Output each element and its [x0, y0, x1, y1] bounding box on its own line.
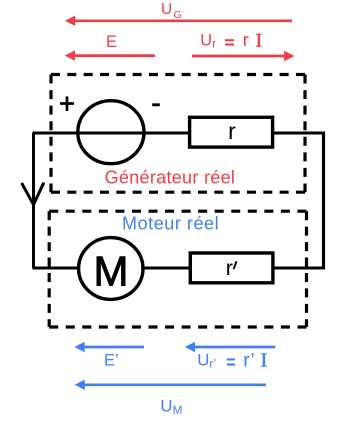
svg-text:I: I	[261, 351, 268, 372]
arrow U_r' (motor internal resistance voltage, points left)	[185, 342, 275, 352]
label U_G	[161, 1, 182, 21]
wire: right vertical	[322, 132, 325, 270]
svg-text:Générateur réel: Générateur réel	[105, 168, 236, 188]
arrow U_r (internal resistance voltage, points right)	[192, 51, 294, 61]
svg-text:r: r	[212, 39, 216, 51]
motor circle M1	[79, 238, 143, 300]
svg-text:Moteur réel: Moteur réel	[122, 214, 219, 234]
svg-text:U: U	[161, 1, 172, 18]
label U_M	[160, 396, 182, 417]
svg-text:r: r	[228, 118, 236, 144]
svg-text:r’: r’	[209, 359, 216, 371]
generator dashed box	[51, 75, 305, 193]
plus terminal	[60, 96, 74, 111]
wire: generator row left (through source circle)	[33, 132, 190, 135]
arrow U_M (motor voltage, points left)	[75, 380, 266, 390]
wire: motor row left	[33, 267, 78, 270]
wire: motor row right	[273, 267, 326, 270]
resistor r	[190, 117, 273, 147]
wire: generator row right	[272, 132, 325, 135]
svg-text:G: G	[174, 9, 182, 21]
label U_r = r I	[200, 29, 262, 51]
resistor r'	[190, 253, 273, 283]
current direction arrowhead on left wire	[22, 183, 44, 205]
arrow E (emf, points left)	[65, 50, 155, 60]
svg-text:r’: r’	[243, 349, 255, 371]
svg-text:U: U	[200, 31, 212, 49]
svg-text:M: M	[173, 404, 183, 417]
minus terminal	[152, 103, 160, 106]
svg-text:M: M	[94, 248, 129, 295]
svg-text:I: I	[256, 30, 262, 51]
svg-text:U: U	[197, 350, 209, 369]
motor dashed box	[49, 211, 306, 327]
wire: motor row between M and r'	[142, 267, 191, 270]
arrow E' (motor back-emf, points left)	[74, 342, 144, 352]
svg-text:U: U	[160, 396, 172, 415]
label U_r' = r' I	[197, 349, 267, 371]
svg-text:r: r	[243, 29, 249, 50]
svg-text:E’: E’	[104, 351, 119, 369]
arrow U_G (generator voltage, points left)	[65, 16, 292, 26]
generator source circle	[78, 101, 144, 164]
wire: left vertical	[32, 133, 35, 268]
svg-text:E: E	[106, 33, 117, 51]
svg-text:r: r	[226, 256, 233, 280]
